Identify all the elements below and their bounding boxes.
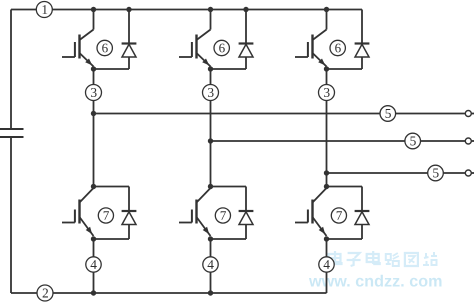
diode lower freewheel leg2	[239, 187, 254, 240]
junction: leg2 lower emitter node	[208, 236, 213, 241]
wire: leg3 node 3 down to output tap	[326, 100, 328, 173]
label 7 for lower IGBT leg1	[98, 208, 113, 223]
diode upper freewheel leg1	[122, 10, 137, 70]
wire: leg3 upper collector stub from top rail	[326, 10, 328, 30]
wire: leg3 lower emitter to diode anode	[327, 238, 363, 240]
capacitor DC-link, bottom plate	[0, 136, 24, 138]
capacitor DC-link, top plate	[0, 128, 24, 130]
wire: top DC bus rail (node 1 net)	[11, 9, 362, 11]
node 1 (DC bus +)	[36, 2, 52, 18]
label 6 for upper IGBT leg2	[214, 40, 229, 55]
junction: upper diode leg2 on top rail	[243, 7, 248, 12]
node 5 on output phase 3	[428, 165, 444, 181]
terminal: output phase 3 open circle	[465, 170, 474, 176]
wire: leg1 emitter to node 3 circle	[93, 69, 95, 85]
junction: leg2 on bottom rail	[208, 290, 213, 295]
wire: leg3 upper emitter to diode anode	[327, 68, 363, 70]
junction: leg1 output tap	[91, 111, 96, 116]
wire: leg2 node 4 down to bottom rail	[210, 272, 212, 293]
junction: leg2 lower collector	[208, 184, 213, 189]
junction: leg1 upper emitter node	[91, 66, 96, 71]
IGBT upper leg2 (device 6)	[179, 30, 211, 67]
junction: leg2 output tap	[208, 138, 213, 143]
junction: leg3 lower emitter node	[324, 236, 329, 241]
terminal: output phase 2 open circle	[465, 138, 474, 144]
wire: leg3 node 4 down to bottom rail	[326, 272, 328, 293]
junction: leg3 output tap	[324, 170, 329, 175]
watermark: site logo 电子电路图站 (light blue)	[329, 251, 438, 266]
junction: upper diode leg1 on top rail	[126, 7, 131, 12]
terminal: output phase 1 open circle	[465, 111, 474, 117]
label 6 for upper IGBT leg3	[330, 40, 345, 55]
junction: leg1 lower emitter node	[91, 236, 96, 241]
wire: leg2 node 3 down to output tap	[210, 100, 212, 141]
junction: leg2 collector on top rail	[208, 7, 213, 12]
wire: leg2 upper collector stub from top rail	[210, 10, 212, 30]
wire: left vertical bus from top rail to capacitor	[10, 10, 12, 130]
wire: output phase 3 line	[327, 172, 466, 174]
wire: leg1 lower emitter to node 4	[93, 239, 95, 257]
label 6 for upper IGBT leg1	[97, 40, 112, 55]
junction: leg1 collector on top rail	[91, 7, 96, 12]
diode upper freewheel leg2	[239, 10, 254, 70]
IGBT lower leg3 (device 7)	[295, 188, 327, 236]
wire: leg1 node 3 down to output tap	[93, 100, 95, 114]
wire: leg1 lower emitter to diode anode	[94, 238, 130, 240]
IGBT lower leg2 (device 7)	[179, 188, 211, 236]
wire: leg1 upper emitter to diode anode	[94, 68, 130, 70]
wire: leg3 emitter to node 3 circle	[326, 69, 328, 85]
node 4 of leg3	[319, 257, 334, 272]
junction: leg1 lower collector	[91, 184, 96, 189]
wire: leg1 tap down to lower collector	[93, 114, 95, 187]
junction: leg2 upper emitter node	[208, 66, 213, 71]
wire: output phase 1 line	[94, 113, 466, 115]
wire: leg2 emitter to node 3 circle	[210, 69, 212, 85]
wire: leg2 tap down to lower collector	[210, 141, 212, 187]
node 5 on output phase 2	[405, 133, 421, 149]
wire: leg3 lower collector to diode cathode	[327, 186, 363, 188]
node 4 of leg1	[86, 257, 101, 272]
diode upper freewheel leg3	[355, 10, 370, 70]
wire: leg2 lower emitter to diode anode	[211, 238, 247, 240]
IGBT lower leg1 (device 7)	[62, 188, 94, 236]
wire: leg1 lower collector to diode cathode	[94, 186, 130, 188]
label 7 for lower IGBT leg2	[215, 208, 230, 223]
node 5 on output phase 1	[380, 106, 396, 122]
node 3 of leg1	[86, 85, 102, 101]
wire: leg3 tap down to lower collector	[326, 173, 328, 187]
IGBT upper leg1 (device 6)	[62, 30, 94, 67]
wire: leg2 lower collector to diode cathode	[211, 186, 247, 188]
IGBT upper leg3 (device 6)	[295, 30, 327, 67]
wire: output phase 2 line	[211, 140, 466, 142]
wire: leg2 upper emitter to diode anode	[211, 68, 247, 70]
junction: leg3 collector on top rail	[324, 7, 329, 12]
wire: leg2 lower emitter to node 4	[210, 239, 212, 257]
node 4 of leg2	[203, 257, 218, 272]
node 2 (DC bus -)	[37, 285, 53, 301]
junction: leg3 lower collector	[324, 184, 329, 189]
label 7 for lower IGBT leg3	[331, 208, 346, 223]
watermark: www.cndzz.com (light blue)	[309, 275, 442, 287]
wire: left vertical bus from capacitor to bottom rail	[10, 137, 12, 293]
wire: leg3 lower emitter to node 4	[326, 239, 328, 257]
node 3 of leg2	[203, 85, 219, 101]
junction: leg3 upper emitter node	[324, 66, 329, 71]
wire: bottom DC bus rail (node 2 net)	[11, 292, 327, 294]
wire: leg1 upper collector stub from top rail	[93, 10, 95, 30]
node 3 of leg3	[319, 85, 335, 101]
wire: leg1 node 4 down to bottom rail	[93, 272, 95, 293]
diode lower freewheel leg1	[122, 187, 137, 240]
diode lower freewheel leg3	[355, 187, 370, 240]
junction: leg1 on bottom rail	[91, 290, 96, 295]
